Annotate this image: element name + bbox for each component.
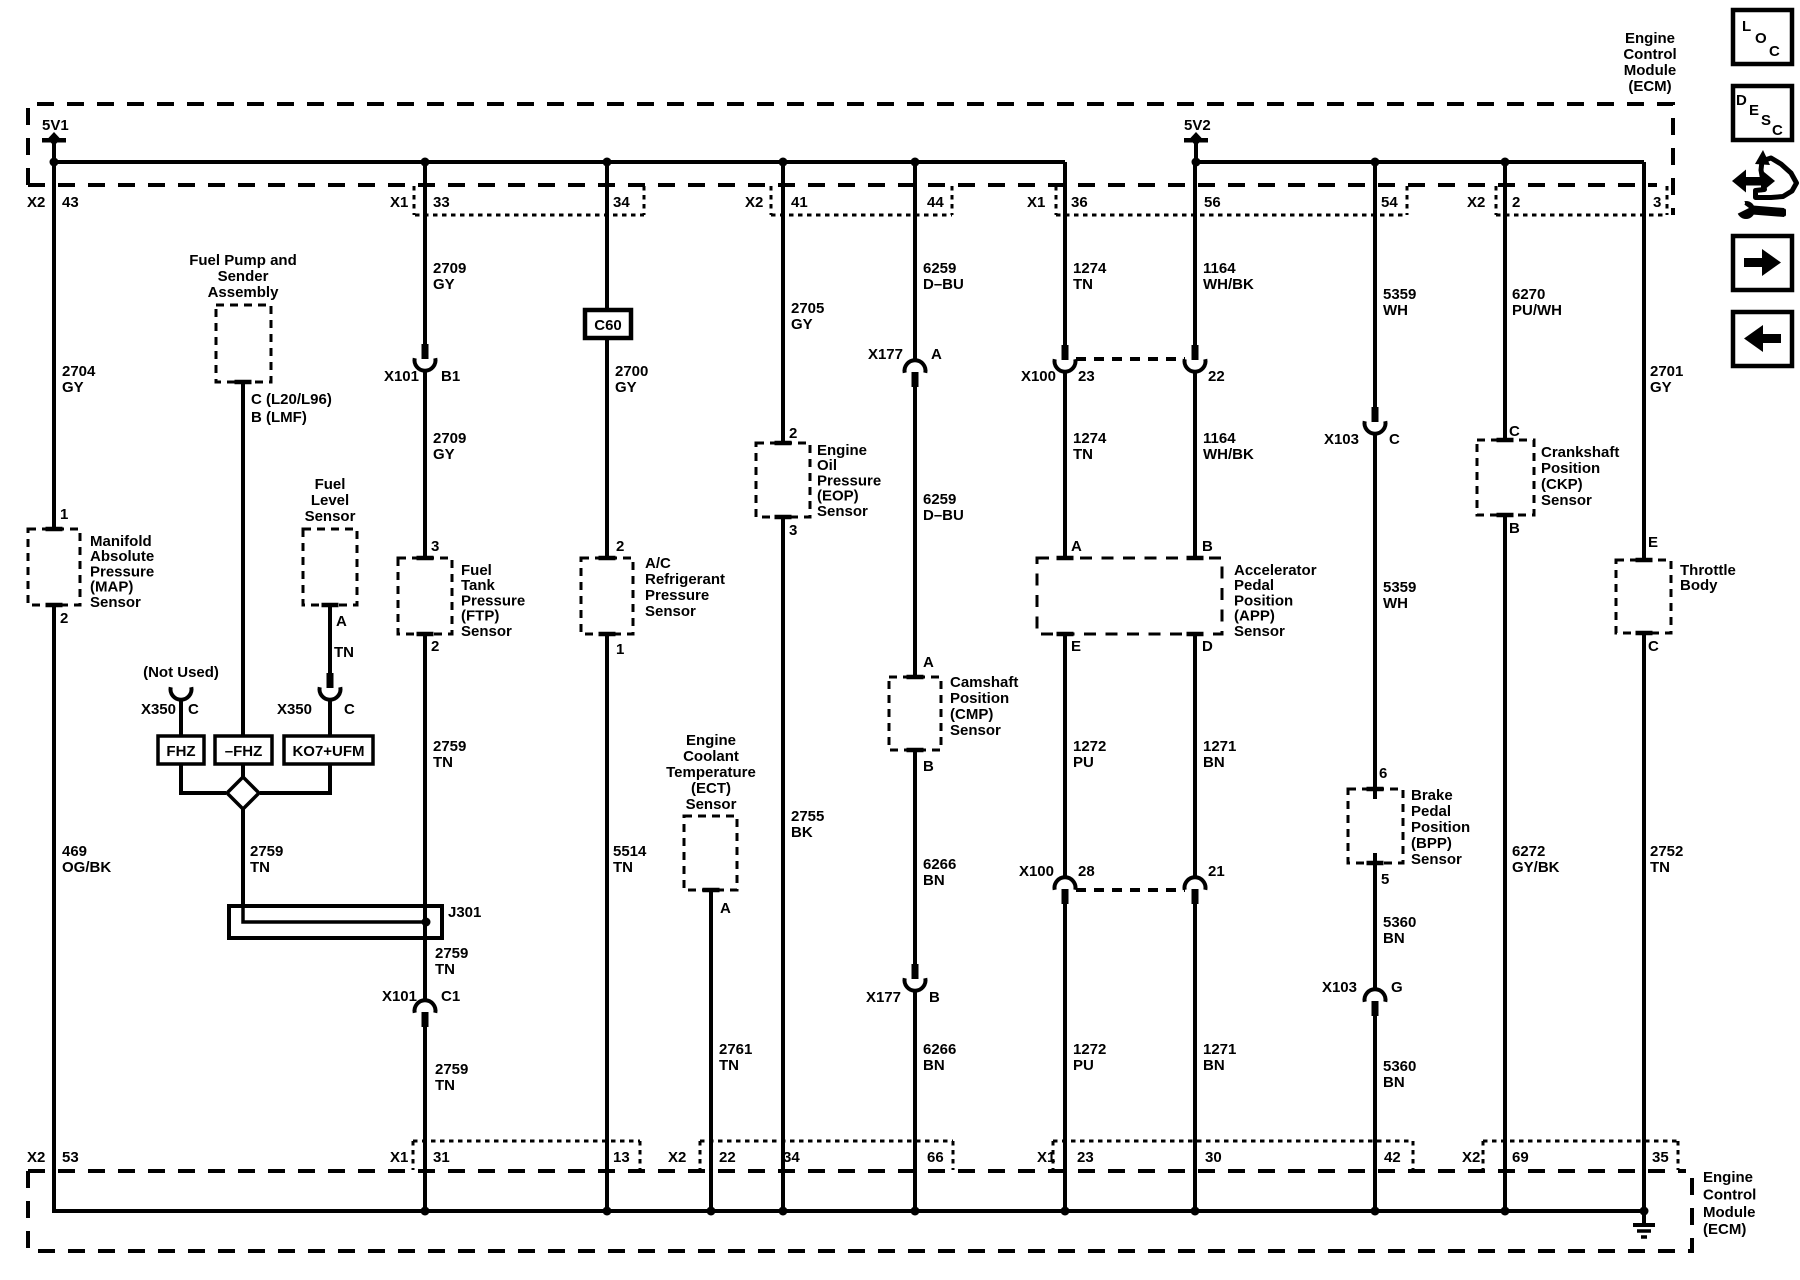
wire 2701 GY — [1642, 162, 1646, 560]
svg-text:KO7+UFM: KO7+UFM — [292, 743, 364, 760]
junction on top bus at x=915 — [911, 158, 920, 167]
svg-text:EngineControlModule(ECM): EngineControlModule(ECM) — [1623, 30, 1676, 95]
wire 5360 BN upper — [1373, 853, 1377, 990]
svg-text:B: B — [1202, 538, 1213, 555]
connector X100 28 — [1055, 877, 1076, 904]
junction on bottom bus at x=607 — [603, 1207, 612, 1216]
ECM top connector row dotted underline segments — [415, 214, 1667, 217]
wire 2752 TN — [1642, 633, 1646, 1211]
CMP sensor box — [889, 677, 941, 750]
svg-text:E: E — [1071, 638, 1081, 655]
ECM bottom connector row dotted underline segments — [413, 1140, 1678, 1143]
wire 5359 WH lower — [1373, 433, 1377, 799]
svg-text:B1: B1 — [441, 368, 460, 385]
svg-text:C: C — [188, 701, 199, 718]
svg-text:44: 44 — [927, 194, 944, 211]
connector X100 21 — [1185, 877, 1206, 904]
svg-text:C: C — [1648, 638, 1659, 655]
svg-text:C60: C60 — [594, 317, 622, 334]
svg-text:42: 42 — [1384, 1149, 1401, 1166]
wire 5V2 reference bus (top right) — [1196, 160, 1644, 164]
FTP sensor box — [398, 558, 452, 634]
svg-text:1: 1 — [60, 506, 68, 523]
svg-text:13: 13 — [613, 1149, 630, 1166]
wire fuel level A — [328, 605, 332, 673]
svg-text:41: 41 — [791, 194, 808, 211]
wire 6266 BN upper — [913, 750, 917, 964]
wire 5V1 reference bus (top left) — [54, 160, 1065, 164]
MAP sensor box — [28, 529, 80, 605]
svg-text:66: 66 — [927, 1149, 944, 1166]
option box FHZ — [158, 736, 204, 764]
svg-text:X2: X2 — [1462, 1149, 1480, 1166]
Throttle Body box — [1616, 560, 1671, 633]
CKP sensor box — [1477, 440, 1534, 515]
svg-text:22: 22 — [1208, 368, 1225, 385]
svg-text:C: C — [1769, 43, 1780, 60]
svg-text:54: 54 — [1381, 194, 1398, 211]
junction on bottom bus at x=711 — [707, 1207, 716, 1216]
svg-text:2: 2 — [431, 638, 439, 655]
svg-text:A: A — [923, 654, 934, 671]
svg-text:TN: TN — [334, 644, 354, 661]
wire 2755 BK — [781, 517, 785, 1211]
splice pack J301 — [229, 906, 442, 938]
svg-text:69: 69 — [1512, 1149, 1529, 1166]
svg-text:B: B — [1509, 520, 1520, 537]
wire 6259 D-BU lower — [913, 387, 917, 677]
wire 2759 TN to J301 — [423, 634, 427, 906]
svg-text:28: 28 — [1078, 863, 1095, 880]
wire 1164 WH/BK upper — [1193, 162, 1197, 345]
wire 2709 GY upper — [423, 162, 427, 344]
svg-text:B: B — [923, 758, 934, 775]
connector X101 B1 — [415, 344, 436, 371]
svg-text:35: 35 — [1652, 1149, 1669, 1166]
wire low-reference bus (bottom) — [54, 605, 1644, 1211]
svg-text:34: 34 — [783, 1149, 800, 1166]
svg-text:2: 2 — [616, 538, 624, 555]
icon box arrow left — [1733, 312, 1792, 366]
svg-text:23: 23 — [1078, 368, 1095, 385]
junction on bottom bus at x=783 — [779, 1207, 788, 1216]
junction on bottom bus at x=915 — [911, 1207, 920, 1216]
wire 2709 GY lower — [423, 370, 427, 558]
svg-text:3: 3 — [789, 522, 797, 539]
svg-text:X1: X1 — [1037, 1149, 1055, 1166]
wire 6270 PU/WH — [1503, 162, 1507, 440]
svg-text:A: A — [1071, 538, 1082, 555]
svg-text:X177: X177 — [868, 346, 903, 363]
ECT sensor box — [684, 816, 737, 890]
splice diamond — [227, 777, 259, 809]
junction on top bus at x=607 — [603, 158, 612, 167]
svg-text:3: 3 — [431, 538, 439, 555]
svg-text:22: 22 — [719, 1149, 736, 1166]
connector X100 22 — [1184, 345, 1205, 372]
svg-text:E: E — [1749, 102, 1759, 119]
wire 1272 PU lower — [1063, 904, 1067, 1211]
ECM bottom connector row dotted dividers — [413, 1141, 1678, 1170]
wire 1271 BN upper — [1193, 634, 1197, 878]
svg-text:34: 34 — [613, 194, 630, 211]
ECM top connector row dotted dividers — [414, 186, 1667, 215]
svg-text:X101: X101 — [382, 988, 417, 1005]
svg-text:X350: X350 — [277, 701, 312, 718]
wire 5359 WH upper — [1373, 162, 1377, 407]
option box KO7+UFM — [284, 736, 373, 764]
wire 2759 TN through J301 — [423, 906, 427, 1001]
icon box DESC — [1733, 86, 1792, 140]
svg-text:–FHZ: –FHZ — [225, 743, 263, 760]
svg-text:J301: J301 — [448, 904, 481, 921]
ECM module box (bottom) dashed outline — [28, 1171, 1692, 1251]
connector X100 23 — [1055, 345, 1076, 372]
connector X101 C1 — [415, 1000, 436, 1027]
node 5V2 reference — [1184, 117, 1211, 162]
svg-text:D: D — [1736, 92, 1747, 109]
wire 2759 TN splice to J301 — [241, 809, 245, 906]
svg-text:33: 33 — [433, 194, 450, 211]
junction on bottom bus at x=1505 — [1501, 1207, 1510, 1216]
svg-text:C: C — [1509, 423, 1520, 440]
svg-text:5V2: 5V2 — [1184, 117, 1211, 134]
svg-text:X103: X103 — [1324, 431, 1359, 448]
svg-text:C1: C1 — [441, 988, 460, 1005]
wire 1164 WH/BK lower — [1193, 371, 1197, 558]
connector X350 C (not used) — [171, 687, 192, 700]
connector X103 G — [1365, 989, 1386, 1016]
svg-text:(Not Used): (Not Used) — [143, 664, 219, 681]
wire 5514 TN — [605, 634, 609, 1211]
junction on bottom bus at x=1375 — [1371, 1207, 1380, 1216]
wire X350 C to KO7 — [328, 699, 332, 736]
svg-text:5: 5 — [1381, 871, 1389, 888]
svg-text:X101: X101 — [384, 368, 419, 385]
icon box arrow right — [1733, 236, 1792, 290]
svg-text:30: 30 — [1205, 1149, 1222, 1166]
junction on 5V2 bus at x=1375 — [1371, 158, 1380, 167]
connector X103 C — [1365, 407, 1386, 434]
junction on 5V2 bus at x=1196 — [1192, 158, 1201, 167]
wire FHZ to splice diamond — [181, 764, 226, 793]
svg-text:2: 2 — [60, 610, 68, 627]
svg-text:FHZ: FHZ — [166, 743, 195, 760]
dashed tie X100 23-22 — [1076, 357, 1185, 361]
node 5V1 reference — [42, 117, 69, 162]
wire 2704 GY (MAP 5V) — [52, 162, 56, 529]
svg-text:53: 53 — [62, 1149, 79, 1166]
wire 1272 PU upper — [1063, 634, 1067, 878]
wire 2705 GY — [781, 162, 785, 443]
svg-text:X350: X350 — [141, 701, 176, 718]
svg-text:E: E — [1648, 534, 1658, 551]
svg-text:A: A — [336, 613, 347, 630]
junction on 5V2 bus at x=1505 — [1501, 158, 1510, 167]
wire X350 C to FHZ — [179, 699, 183, 736]
Fuel Pump and Sender Assembly box — [216, 305, 271, 382]
connector X350 C (fuel level) — [320, 673, 341, 700]
wire 1274 TN lower — [1063, 371, 1067, 558]
svg-text:23: 23 — [1077, 1149, 1094, 1166]
svg-text:31: 31 — [433, 1149, 450, 1166]
svg-text:D: D — [1202, 638, 1213, 655]
svg-text:X1: X1 — [390, 1149, 408, 1166]
svg-text:X100: X100 — [1019, 863, 1054, 880]
svg-text:L: L — [1742, 18, 1751, 35]
svg-text:X2: X2 — [668, 1149, 686, 1166]
svg-text:X103: X103 — [1322, 979, 1357, 996]
ground symbol at ECM — [1633, 1211, 1655, 1237]
junction on bottom bus at x=1065 — [1061, 1207, 1070, 1216]
svg-text:1: 1 — [616, 641, 624, 658]
junction on top bus at x=783 — [779, 158, 788, 167]
svg-text:X1: X1 — [1027, 194, 1045, 211]
wire 6272 GY/BK — [1503, 515, 1507, 1211]
svg-text:6: 6 — [1379, 765, 1387, 782]
svg-text:B: B — [929, 989, 940, 1006]
svg-text:2: 2 — [789, 425, 797, 442]
svg-text:X2: X2 — [27, 1149, 45, 1166]
svg-text:C: C — [1389, 431, 1400, 448]
A/C refrigerant pressure sensor box — [581, 558, 633, 634]
BPP sensor box — [1348, 789, 1403, 863]
svg-text:X177: X177 — [866, 989, 901, 1006]
icon wrench — [1733, 197, 1786, 219]
Fuel Level Sensor box — [303, 529, 357, 605]
junction inside J301 — [422, 918, 431, 927]
junction on bottom bus at x=425 — [421, 1207, 430, 1216]
wire -FHZ to splice diamond — [241, 764, 245, 778]
wire 2761 TN — [709, 890, 713, 1211]
connector X177 A — [905, 360, 926, 387]
EOP sensor box — [756, 443, 810, 517]
wire 6259 D-BU upper — [913, 162, 917, 361]
svg-text:C: C — [344, 701, 355, 718]
wire 1274 TN upper — [1063, 162, 1067, 345]
svg-text:O: O — [1755, 30, 1767, 47]
ECM module box (top) dashed outline — [28, 104, 1673, 215]
pin entry ticks on sensor boxes — [46, 382, 1653, 890]
inline connector C60 box — [585, 310, 631, 338]
wire 2700 GY — [605, 162, 609, 558]
svg-text:A: A — [931, 346, 942, 363]
svg-text:X2: X2 — [745, 194, 763, 211]
icon box LOC — [1733, 10, 1792, 64]
wire 5360 BN lower — [1373, 1016, 1377, 1211]
icon double arrow — [1732, 170, 1775, 193]
svg-text:X1: X1 — [390, 194, 408, 211]
wire fuel pump output — [241, 382, 245, 736]
svg-text:2: 2 — [1512, 194, 1520, 211]
svg-text:X100: X100 — [1021, 368, 1056, 385]
icon hook arrow outline — [1755, 150, 1797, 198]
svg-text:C: C — [1772, 122, 1783, 139]
wire KO7+UFM to splice diamond — [260, 764, 330, 793]
svg-text:43: 43 — [62, 194, 79, 211]
svg-text:5V1: 5V1 — [42, 117, 69, 134]
option box -FHZ — [215, 736, 272, 764]
wire 2759 TN lower — [423, 1027, 427, 1211]
junction on bottom bus at x=1195 — [1191, 1207, 1200, 1216]
svg-text:21: 21 — [1208, 863, 1225, 880]
svg-text:S: S — [1761, 112, 1771, 129]
wire 6266 BN lower — [913, 990, 917, 1211]
dashed tie X100 28-21 — [1076, 888, 1185, 892]
svg-text:G: G — [1391, 979, 1403, 996]
junction on top bus at x=54 — [50, 158, 59, 167]
svg-text:56: 56 — [1204, 194, 1221, 211]
svg-text:36: 36 — [1071, 194, 1088, 211]
svg-text:A: A — [720, 900, 731, 917]
svg-text:X2: X2 — [27, 194, 45, 211]
wire 1271 BN lower — [1193, 904, 1197, 1211]
junction on top bus at x=425 — [421, 158, 430, 167]
junction on bottom bus at x=1644 — [1640, 1207, 1649, 1216]
connector X177 B — [905, 964, 926, 991]
svg-text:3: 3 — [1653, 194, 1661, 211]
APP sensor box — [1037, 558, 1222, 634]
svg-text:X2: X2 — [1467, 194, 1485, 211]
